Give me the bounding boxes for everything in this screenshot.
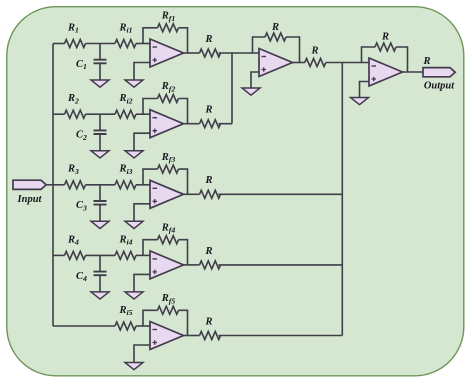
resistor R4: [65, 234, 86, 259]
svg-text:R: R: [204, 246, 212, 257]
wire: U2 output to summing resistor R: [184, 123, 200, 125]
resistor R2: [65, 93, 86, 118]
wire: U3 output to summing resistor R: [184, 193, 200, 195]
op-amp U4: [150, 251, 184, 279]
wire: branch 5 R output to summing bus 2: [219, 335, 343, 337]
ground (U2 + input): [125, 151, 143, 158]
wire: U7 output to Output terminal: [403, 71, 424, 73]
terminal: Input: [13, 180, 46, 205]
wire: branch 3 R output to summing bus 2: [219, 193, 343, 195]
resistor Ri3: [115, 164, 136, 189]
op-amp U5: [150, 322, 184, 350]
wire: U2 non-inverting input to ground: [134, 133, 150, 151]
capacitor C1: [76, 44, 106, 81]
svg-text:R: R: [204, 105, 212, 116]
wire: U6 R output to final amp U7 input: [326, 62, 369, 64]
svg-text:Input: Input: [17, 194, 43, 205]
wire: bus to R2 (branch 2): [53, 113, 65, 115]
svg-text:R: R: [310, 46, 318, 57]
wire: U6 output to R: [293, 62, 305, 64]
ground (U4 + input): [125, 292, 143, 299]
wire: input vertical bus: [52, 44, 54, 327]
resistor R (U7 feedback): [375, 32, 396, 52]
svg-text:R: R: [204, 316, 212, 327]
wire: bus to R4 (branch 4): [53, 254, 65, 256]
resistor Ri4: [115, 234, 136, 259]
resistor R (branch 2 summing): [200, 105, 221, 128]
terminal: Output: [423, 68, 455, 92]
wire: feedback connections for Rf3: [143, 169, 158, 185]
wire: bus to Ri5 (branch 5): [53, 325, 115, 327]
resistor R (branch 3 summing): [200, 175, 221, 198]
resistor R1: [65, 22, 86, 47]
wire: Ri1 to op-amp U1 inverting input: [136, 43, 150, 45]
resistor Ri5: [115, 305, 136, 330]
svg-text:R: R: [204, 175, 212, 186]
resistor Rf5: [158, 293, 179, 314]
ground (below C4): [91, 292, 109, 299]
svg-text:R: R: [204, 34, 212, 45]
resistor Rf2: [158, 81, 179, 102]
wire: branch 4 R output to summing bus 2: [219, 264, 343, 266]
capacitor C2: [76, 114, 106, 151]
resistor R (branch 5 summing): [200, 316, 221, 339]
wire: feedback connections for Rf2: [143, 99, 158, 115]
ground (U3 + input): [125, 221, 143, 228]
wire: U3 non-inverting input to ground: [134, 204, 150, 222]
capacitor C4: [76, 255, 106, 292]
wire: feedback connections for U6 R: [253, 37, 266, 53]
op-amp U6 (summing): [259, 49, 293, 77]
node: summing junction 1 (vertical tie, x=232): [231, 53, 233, 124]
op-amp U2: [150, 110, 184, 138]
wire: R2 to Ri2: [86, 113, 116, 115]
ground (U1 + input): [125, 80, 143, 87]
resistor Ri1: [115, 22, 136, 47]
wire: R3 to Ri3: [86, 184, 116, 186]
resistor Ri2: [115, 93, 136, 118]
svg-text:R: R: [422, 56, 430, 67]
ground (U7 + input): [351, 98, 369, 105]
svg-text:R: R: [381, 32, 389, 43]
wire: U1 non-inverting input to ground: [134, 63, 150, 81]
resistor Rf3: [158, 152, 179, 173]
ground (U6 + input): [242, 88, 260, 95]
wire: feedback connections for Rf4: [143, 240, 158, 256]
resistor R3: [65, 164, 86, 189]
wire: R4 to Ri4: [86, 254, 116, 256]
wire: Ri5 to op-amp U5 inverting input: [136, 325, 150, 327]
wire: feedback connections for U7 R: [362, 47, 376, 63]
resistor Rf1: [158, 11, 179, 32]
ground (U5 + input): [125, 363, 143, 370]
wire: branch 1 R output to summing amp U6 input: [219, 52, 260, 54]
wire: U1 output to summing resistor R: [184, 52, 200, 54]
wire: U4 output to summing resistor R: [184, 264, 200, 266]
resistor Rf4: [158, 222, 179, 243]
wire: bus to R1 (branch 1): [53, 43, 65, 45]
op-amp U3: [150, 180, 184, 208]
wire: U5 output to summing resistor R: [184, 335, 200, 337]
resistor R (U6 feedback): [265, 22, 286, 41]
wire: U5 non-inverting input to ground: [134, 345, 150, 363]
wire: branch 2 R output to node: [219, 123, 233, 125]
wire: input terminal to bus: [46, 184, 53, 186]
capacitor C3: [76, 185, 106, 222]
wire: Ri4 to op-amp U4 inverting input: [136, 254, 150, 256]
wire: U4 non-inverting input to ground: [134, 274, 150, 292]
svg-text:Output: Output: [424, 80, 455, 91]
node: summing junction 2 (vertical bus, x=342.3): [341, 63, 343, 336]
wire: bus to R3 (branch 3): [53, 184, 65, 186]
wire: U6 non-inverting input to ground: [251, 72, 259, 88]
ground (below C1): [91, 80, 109, 87]
svg-text:R: R: [271, 22, 279, 33]
wire: R1 to Ri1: [86, 43, 116, 45]
wire: feedback connections for Rf5: [143, 310, 158, 326]
ground (below C3): [91, 221, 109, 228]
op-amp U1: [150, 39, 184, 67]
ground (below C2): [91, 151, 109, 158]
op-amp U7 (output): [369, 58, 403, 86]
wire: U7 non-inverting input to ground: [360, 82, 370, 98]
resistor R (U6 output): [305, 46, 326, 67]
wire: Ri2 to op-amp U2 inverting input: [136, 113, 150, 115]
wire: feedback connections for Rf1: [143, 28, 158, 44]
resistor R (branch 1 summing): [200, 34, 221, 57]
resistor R (branch 4 summing): [200, 246, 221, 269]
wire: Ri3 to op-amp U3 inverting input: [136, 184, 150, 186]
